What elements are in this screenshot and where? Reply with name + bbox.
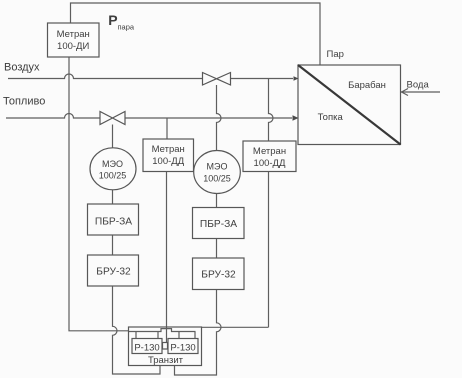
svg-text:Метран: Метран [152,144,185,155]
svg-text:100-ДД: 100-ДД [254,158,286,169]
svg-text:Топка: Топка [318,112,344,123]
svg-text:Воздух: Воздух [4,62,40,74]
svg-text:Р-130: Р-130 [170,343,195,354]
svg-text:100/25: 100/25 [99,171,127,181]
svg-text:МЭО: МЭО [102,159,123,169]
svg-text:Барабан: Барабан [348,80,386,91]
svg-text:ПБР-ЗА: ПБР-ЗА [95,217,132,228]
svg-text:МЭО: МЭО [207,162,228,172]
svg-text:ПБР-ЗА: ПБР-ЗА [200,219,237,230]
svg-text:пара: пара [118,23,135,32]
svg-text:100/25: 100/25 [203,174,231,184]
svg-text:Вода: Вода [407,80,430,91]
svg-text:Метран: Метран [57,29,90,40]
svg-text:Р-130: Р-130 [134,343,159,354]
svg-text:100-ДИ: 100-ДИ [57,41,89,52]
svg-text:100-ДД: 100-ДД [152,156,184,167]
svg-text:Р: Р [108,12,117,28]
svg-text:Пар: Пар [327,49,344,60]
svg-text:БРУ-32: БРУ-32 [201,270,236,281]
svg-text:Транзит: Транзит [148,355,184,366]
svg-text:БРУ-32: БРУ-32 [96,267,131,278]
svg-text:Метран: Метран [253,146,286,157]
svg-text:Топливо: Топливо [3,95,45,107]
